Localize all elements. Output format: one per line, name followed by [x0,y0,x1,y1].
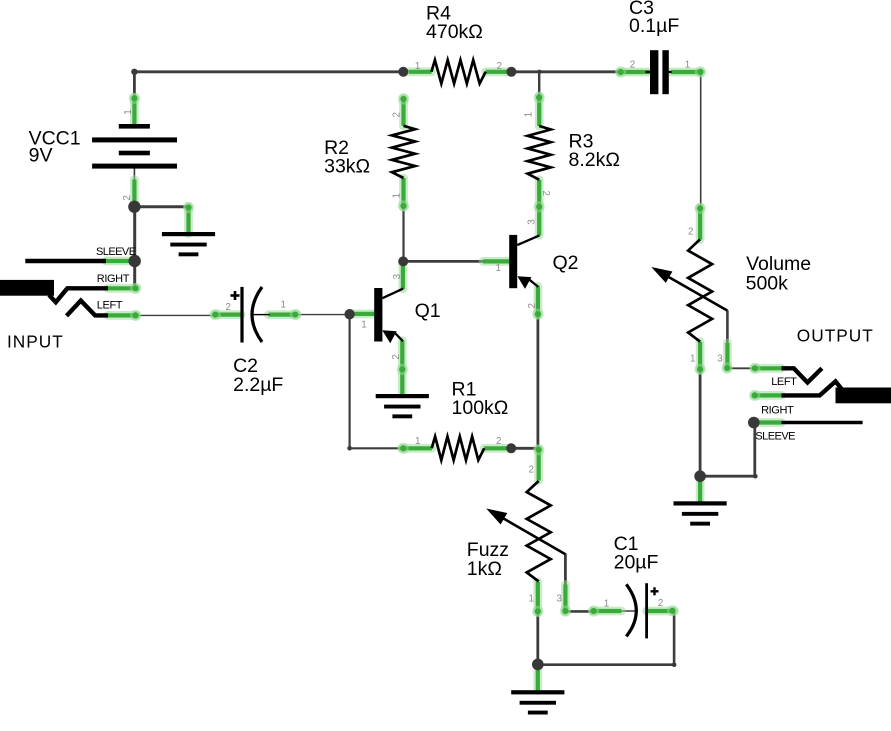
svg-text:3: 3 [392,273,403,279]
svg-text:1: 1 [391,193,402,198]
svg-text:2: 2 [527,303,538,308]
svg-text:RIGHT: RIGHT [761,405,794,417]
svg-text:1: 1 [415,61,420,72]
svg-text:33kΩ: 33kΩ [324,156,370,178]
svg-text:8.2kΩ: 8.2kΩ [569,149,620,171]
svg-text:2: 2 [540,191,551,196]
svg-text:LEFT: LEFT [97,299,123,311]
svg-text:3: 3 [557,593,563,604]
svg-text:2: 2 [529,465,534,476]
svg-text:3: 3 [527,219,538,225]
svg-text:1kΩ: 1kΩ [467,558,502,580]
svg-text:500k: 500k [746,272,789,294]
svg-text:1: 1 [685,59,690,70]
svg-text:2: 2 [391,112,402,117]
svg-text:1: 1 [604,599,609,610]
svg-text:2: 2 [391,354,402,359]
svg-text:2: 2 [630,60,635,71]
svg-text:1: 1 [524,112,535,117]
svg-text:Q1: Q1 [415,300,441,322]
svg-text:2: 2 [497,61,502,72]
svg-text:1: 1 [496,263,501,274]
svg-text:1: 1 [529,593,534,604]
svg-text:20µF: 20µF [614,551,659,573]
svg-text:0.1µF: 0.1µF [629,15,679,37]
svg-text:2: 2 [226,302,231,313]
svg-text:SLEEVE: SLEEVE [755,431,795,443]
svg-text:2: 2 [496,436,501,447]
svg-text:OUTPUT: OUTPUT [797,326,874,346]
svg-text:2.2µF: 2.2µF [233,374,283,396]
svg-text:1: 1 [361,319,366,330]
svg-text:2: 2 [122,195,133,200]
svg-text:Q2: Q2 [553,252,579,274]
svg-text:470kΩ: 470kΩ [426,21,483,43]
svg-text:1: 1 [415,436,420,447]
svg-text:1: 1 [281,300,286,311]
svg-text:SLEEVE: SLEEVE [96,246,136,258]
svg-text:2: 2 [688,227,693,238]
svg-text:INPUT: INPUT [7,332,64,352]
svg-text:RIGHT: RIGHT [97,273,130,285]
svg-text:3: 3 [717,354,723,365]
svg-text:9V: 9V [29,144,53,166]
svg-text:1: 1 [123,109,134,114]
svg-text:2: 2 [658,598,663,609]
svg-text:100kΩ: 100kΩ [452,397,509,419]
svg-text:LEFT: LEFT [771,376,797,388]
svg-text:1: 1 [690,354,695,365]
